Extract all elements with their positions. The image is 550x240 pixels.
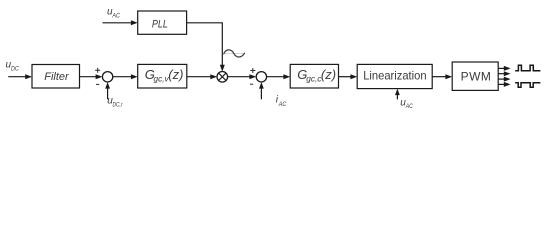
- block PWM: [452, 62, 498, 90]
- summing junction S1: [102, 72, 112, 82]
- block Linearization: [357, 64, 432, 88]
- label u_AC (PLL input): [107, 6, 120, 19]
- svg-text:Filter: Filter: [44, 71, 70, 83]
- svg-text:AC: AC: [112, 13, 121, 20]
- block Ggcc(z): [290, 64, 338, 88]
- wire input to Filter: [8, 74, 32, 79]
- wire i_AC into S2: [259, 82, 264, 99]
- block Ggcv(z): [138, 64, 187, 88]
- wire Ggcc to Linearization: [339, 74, 358, 79]
- block PLL: [138, 11, 187, 34]
- PWM output arrow 2: [498, 71, 510, 76]
- label u_DC (input): [6, 60, 20, 73]
- wire multiplier to summing junction S2: [228, 74, 257, 79]
- svg-text:AC: AC: [278, 101, 287, 108]
- label u_DC,r: [107, 96, 123, 109]
- wire u_AC into Linearization: [395, 89, 400, 100]
- PWM output arrow 4: [498, 82, 510, 87]
- sine symbol: [224, 50, 245, 57]
- wire u_DC,r into S1: [105, 82, 110, 99]
- svg-text:Linearization: Linearization: [363, 69, 426, 83]
- svg-text:gc,v: gc,v: [154, 74, 170, 83]
- sine symbol midline: [224, 53, 245, 55]
- svg-text:DC,r: DC,r: [113, 101, 124, 108]
- wire S1 to Ggcv: [113, 74, 138, 79]
- svg-text:gc,c: gc,c: [306, 74, 321, 83]
- wire S2 to Ggcc: [267, 74, 291, 79]
- svg-text:(z): (z): [168, 67, 183, 82]
- PWM output arrow 3: [498, 77, 510, 82]
- wire Filter to summing junction S1: [80, 74, 103, 79]
- waveform lower (complementary pulse train): [515, 83, 540, 87]
- plus sign S1: [95, 68, 100, 73]
- svg-text:PLL: PLL: [152, 19, 168, 31]
- waveform upper (PWM pulse train): [515, 65, 540, 70]
- wire PLL to multiplier: [187, 23, 225, 72]
- multiplier M1: [217, 72, 228, 83]
- minus sign S1: [96, 83, 99, 85]
- label u_AC (linearization input): [400, 97, 413, 110]
- wire u_AC to PLL: [103, 20, 138, 25]
- block Filter: [32, 65, 80, 89]
- svg-text:PWM: PWM: [461, 69, 492, 83]
- plus sign S2: [250, 68, 255, 73]
- label i_AC: [276, 95, 287, 108]
- svg-text:DC: DC: [11, 66, 19, 73]
- minus sign S2: [250, 83, 253, 85]
- svg-text:(z): (z): [321, 67, 336, 82]
- PWM output arrow 1: [498, 66, 510, 71]
- wire Ggcv to multiplier: [187, 74, 217, 79]
- svg-text:AC: AC: [405, 103, 413, 110]
- summing junction S2: [256, 72, 266, 82]
- wire Linearization to PWM: [432, 74, 452, 79]
